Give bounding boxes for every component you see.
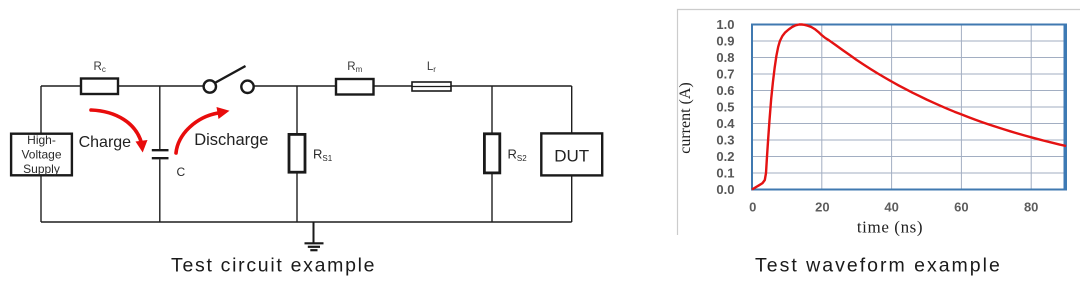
svg-text:0.5: 0.5	[716, 100, 734, 115]
waveform curve	[752, 25, 1066, 190]
svg-text:60: 60	[954, 200, 968, 215]
capacitor C plates	[152, 150, 169, 158]
svg-text:1.0: 1.0	[716, 17, 734, 32]
wire capacitor branch	[159, 86, 161, 222]
switch S1	[204, 66, 254, 93]
svg-text:0.2: 0.2	[716, 149, 734, 164]
resistor R_s1	[289, 134, 305, 172]
chart panel border	[678, 10, 1080, 236]
svg-text:C: C	[177, 165, 186, 179]
wire left vertical (supply branch)	[40, 86, 42, 222]
svg-text:80: 80	[1024, 200, 1038, 215]
svg-text:20: 20	[815, 200, 829, 215]
y axis labels	[716, 17, 735, 197]
svg-text:Lr: Lr	[427, 61, 436, 74]
svg-text:Supply: Supply	[23, 162, 60, 176]
ground	[305, 222, 324, 250]
svg-text:RS1: RS1	[313, 147, 333, 164]
svg-text:Test circuit example: Test circuit example	[171, 255, 376, 277]
svg-text:0.4: 0.4	[716, 116, 735, 131]
svg-text:Rm: Rm	[347, 61, 362, 74]
resistor R_c	[81, 79, 118, 95]
resistor R_s2	[484, 134, 499, 173]
svg-text:0.6: 0.6	[716, 83, 734, 98]
svg-text:0: 0	[749, 200, 756, 215]
svg-text:0.1: 0.1	[716, 166, 734, 181]
plot right border thick	[1064, 24, 1067, 190]
svg-text:RS2: RS2	[508, 147, 528, 164]
svg-text:High-: High-	[27, 133, 56, 147]
plot area	[752, 25, 1066, 190]
svg-text:0.0: 0.0	[716, 182, 734, 197]
svg-text:Charge: Charge	[79, 134, 132, 151]
plot border	[752, 25, 1066, 190]
svg-text:Voltage: Voltage	[21, 147, 61, 161]
x axis labels	[749, 200, 1038, 215]
inductor L_r	[412, 82, 451, 91]
box DUT	[541, 133, 602, 175]
svg-text:time (ns): time (ns)	[857, 218, 923, 237]
wire DUT branch	[571, 86, 573, 222]
gridlines horizontal	[752, 41, 1066, 173]
wire Rs2 branch	[491, 86, 493, 222]
svg-text:current (A): current (A)	[677, 82, 694, 154]
gridlines vertical	[822, 25, 1031, 190]
charge arrow (red)	[91, 110, 142, 143]
box High-Voltage Supply	[11, 134, 72, 176]
svg-text:DUT: DUT	[554, 147, 589, 166]
svg-text:Discharge: Discharge	[194, 131, 268, 149]
svg-text:40: 40	[884, 200, 898, 215]
svg-text:0.8: 0.8	[716, 50, 734, 65]
svg-text:0.9: 0.9	[716, 34, 734, 49]
wire Rs1 branch	[296, 86, 298, 222]
svg-text:Test waveform example: Test waveform example	[755, 255, 1002, 277]
svg-text:0.3: 0.3	[716, 133, 734, 148]
svg-text:0.7: 0.7	[716, 67, 734, 82]
discharge arrow (red)	[176, 113, 218, 153]
wire top rail	[41, 85, 572, 87]
resistor R_m	[336, 79, 374, 95]
svg-text:Rc: Rc	[94, 61, 106, 74]
wire bottom rail	[41, 221, 572, 223]
